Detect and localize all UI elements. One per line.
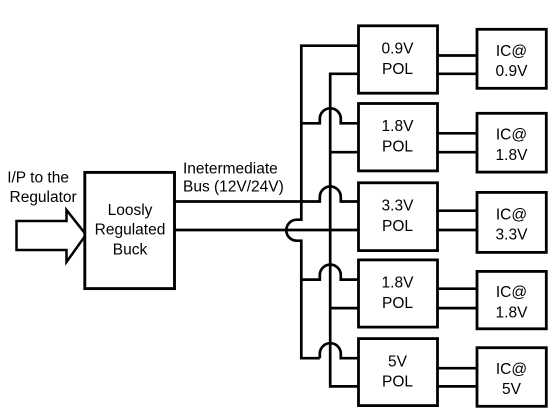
svg-text:5V: 5V [502,381,522,398]
svg-text:3.3V: 3.3V [496,227,529,244]
svg-text:Regulated: Regulated [95,222,166,239]
svg-text:Loosly: Loosly [108,202,153,219]
svg-text:IC@: IC@ [496,43,527,60]
block: IC @ 0.9V [477,29,546,88]
svg-text:Bus (12V/24V): Bus (12V/24V) [183,178,284,195]
svg-text:POL: POL [382,374,413,391]
block: 3.3V POL [359,183,438,251]
svg-text:POL: POL [382,61,413,78]
wire: branch bus2 to 1.8V POL row4 [330,307,358,310]
svg-text:POL: POL [382,139,413,156]
wire: 3.3V POL to IC pair [438,211,478,230]
input block arrow [17,210,87,262]
wire: vertical bus 1 (upper rail, with hop over lower bus) [286,46,358,359]
svg-text:1.8V: 1.8V [496,304,529,321]
block U1: Loosly Regulated Buck [85,172,175,288]
block: 0.9V POL [359,26,438,93]
wire: upper intermediate bus (buck to 3.3V POL, hop over vertical bus 2) [175,187,359,202]
block: IC @ 3.3V [477,192,546,252]
wire: 5V POL to IC pair [438,368,478,386]
svg-text:POL: POL [382,295,413,312]
label: I/P to the Regulator [7,170,77,207]
block: 1.8V POL row4 [359,260,438,327]
label: Inetermediate Bus (12V/24V) [183,161,284,196]
svg-text:1.8V: 1.8V [382,275,415,292]
svg-text:IC@: IC@ [496,361,527,378]
wire: vertical bus 2 (lower rail) [330,74,358,387]
svg-text:IC@: IC@ [496,206,527,223]
block: IC @ 1.8V row4 [477,271,546,328]
svg-text:I/P to the: I/P to the [7,170,69,187]
svg-text:1.8V: 1.8V [496,147,529,164]
svg-text:Inetermediate: Inetermediate [183,161,278,178]
svg-text:POL: POL [382,218,413,235]
svg-text:Buck: Buck [113,242,148,259]
svg-text:0.9V: 0.9V [382,41,415,58]
wire: branch bus2 to 1.8V POL row2 [330,151,358,154]
wire: branch bus1 to 1.8V POL row4 (hop over bus 2) [301,265,358,280]
svg-text:1.8V: 1.8V [382,118,415,135]
block: IC @ 5V [477,348,546,407]
svg-text:0.9V: 0.9V [496,63,529,80]
svg-text:3.3V: 3.3V [382,198,415,215]
wire: 0.9V POL to IC pair [438,56,478,74]
wire: lower intermediate bus (buck to 3.3V POL) [175,229,359,232]
svg-text:IC@: IC@ [496,127,527,144]
svg-text:IC@: IC@ [496,284,527,301]
block: IC @ 1.8V row2 [477,113,546,172]
wire: 1.8V POL row2 to IC pair [438,133,478,152]
wire: 1.8V POL row4 to IC pair [438,289,478,308]
svg-text:Regulator: Regulator [10,189,77,206]
block: 1.8V POL row2 [359,104,438,171]
wire: branch bus1 to 1.8V POL row2 (hop over bus 2) [301,108,358,123]
block: 5V POL [359,339,438,406]
svg-text:5V: 5V [388,353,408,370]
wire: vertical bus 1 bottom branch hop to 5V POL [320,343,359,358]
